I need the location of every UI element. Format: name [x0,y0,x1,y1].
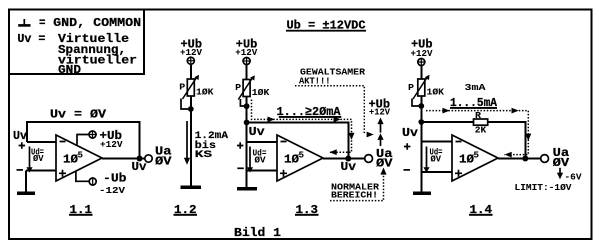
output label Ua 0V (1.1) [155,145,172,169]
node label Uv (1.3 input) [249,125,266,139]
annotation NORMALER BEREICH! [331,181,379,200]
supply label +Ub +12V (1.4) [411,38,433,59]
potentiometer value 10K (1.2) [196,87,214,98]
svg-text:BEREICH!: BEREICH! [331,189,378,200]
current label 1.2mA bis KS [195,130,229,161]
dotted path arrowhead right b (1.3) [334,117,341,123]
wire wiper connection 1.4 [412,99,419,107]
wire non-inverting input 1.4 [421,171,452,173]
wire negative supply pin 1.1 [76,171,89,181]
output terminal circle 1.4 [541,155,549,163]
junction node 2 (feedback) 1.4 [418,119,424,125]
dotted path arrowhead left (1.4) [505,152,512,158]
svg-text:1ØK: 1ØK [427,87,445,98]
wire inverting input 1.3 [247,141,277,143]
svg-text:+12V: +12V [180,47,202,58]
svg-text:-Ub: -Ub [103,172,127,186]
positive supply terminal circle 1.4 [417,58,426,67]
wire main vertical 1.3 [246,65,248,170]
legend text line 2: Uv = Virtuelle [17,32,129,46]
wire ground stem 1.3 [246,171,248,188]
output terminal circle 1.1 [145,155,152,162]
svg-text:Uv: Uv [13,129,28,143]
dotted annotation path (gewaltsamer akt) 1.3 [295,86,364,135]
wire non-inverting input 1.3 [247,170,277,172]
legend text line 4: virtueller [58,53,137,67]
output terminal circle 1.3 [365,155,373,163]
node label Uv (1.3 output) [341,160,357,174]
label LIMIT:-10V [515,182,572,193]
svg-text:Bild 1: Bild 1 [234,226,281,240]
svg-text:KS: KS [195,149,213,161]
svg-text:GND, COMMON: GND, COMMON [53,16,141,30]
dotted annotation path (normaler bereich) 1.3 [330,175,384,201]
svg-text:-12V: -12V [99,185,125,196]
potentiometer P arrow 1.3 [238,75,255,99]
svg-text:5: 5 [474,150,480,161]
potentiometer P arrow 1.4 [413,75,430,99]
svg-text:-6V: -6V [565,172,582,183]
supply label +Ub +12V (1.1) [100,129,123,150]
wire output 1.3 [323,158,365,160]
svg-text:1ØK: 1ØK [196,87,214,98]
op-amp A1 gain label 10^5 [63,150,83,167]
op-amp A2 gain label 10^5 [284,150,304,167]
potentiometer P 10K (1.4) body [418,79,425,96]
minus polarity mark 1.1 [17,169,24,171]
wire wiper connection 1.3 [240,99,244,106]
minus polarity mark 1.3 [237,167,244,169]
wire feedback rail 1.1 [27,122,140,159]
value label Ud= 0V (1.4) [430,147,443,165]
wire feedback rail with resistor 1.4 [421,122,525,159]
positive supply terminal circle 1.2 [187,56,196,65]
svg-text:ØV: ØV [431,153,442,164]
wire inverting input 1.1 [27,141,56,143]
dotted current path 1.3 [252,100,352,153]
caption 1.2 [174,203,198,217]
dotted annotation arrowhead up (1.3) [380,168,386,175]
svg-text:LIMIT:-1ØV: LIMIT:-1ØV [515,182,572,193]
dotted path arrowhead right b (1.4) [512,108,519,114]
svg-text:5: 5 [78,150,84,161]
svg-text:ØV: ØV [376,157,393,171]
wire feedback rail 1.3 [247,122,349,158]
junction node 1 (wiper) 1.4 [418,103,424,109]
supply label -Ub -12V (1.1) [99,172,127,197]
current label 1...5mA (1.4) [450,96,498,110]
svg-text:1Ø: 1Ø [284,153,300,167]
potentiometer value 10K (1.4) [427,87,445,98]
legend ground symbol [18,19,30,25]
wire inverting input 1.4 [421,141,452,143]
wire wiper connection 1.2 [181,99,188,110]
svg-text:ØV: ØV [255,154,266,165]
minus polarity mark 1.4 [404,169,411,171]
svg-text:2K: 2K [475,125,487,136]
current label 3mA (1.4) [465,82,486,93]
svg-text:Uv: Uv [249,125,266,139]
dotted current path 1.4 [426,111,528,155]
caption Bild 1 [234,226,281,240]
svg-text:1ØK: 1ØK [252,87,270,98]
wire output 1.4 [498,158,541,160]
potentiometer P 10K (1.3) body [243,80,250,97]
op-amp A3 gain label 10^5 [459,150,479,167]
junction node 1.2 [188,106,194,112]
caption 1.4 [469,203,493,217]
header label Ub = +/-12VDC [286,19,366,33]
supply label +Ub +12V (1.3 right) [369,98,391,118]
op-amp A3 triangle [452,135,498,181]
caption 1.3 [295,203,319,217]
op-amp A1 triangle [56,135,102,181]
svg-text:+12V: +12V [100,139,123,150]
dotted path arrowhead left (1.3) [330,149,337,155]
svg-text:1Ø: 1Ø [63,153,79,167]
ground 1.3 [237,187,257,191]
legend text line 1: = GND, COMMON [39,16,141,30]
wire ground stem 1.4 [420,172,422,192]
dotted annotation arrowhead right (1.3) [367,132,374,138]
svg-text:5: 5 [299,150,305,161]
svg-text:P: P [408,82,414,93]
plus polarity mark 1.3 [237,142,243,149]
svg-text:ØV: ØV [155,154,172,168]
wire output 1.1 [102,158,145,160]
value label Ud= 0V [31,146,44,164]
annotation GEWALTSAMER AKT!!! [299,67,365,87]
Ud arrow 1.4 [423,147,429,173]
dotted path arrowhead right a (1.3) [268,117,275,123]
potentiometer P arrow 1.2 [183,75,200,99]
node label Uv (input, left) [13,129,28,143]
supply label +Ub +12V (1.2) [180,38,202,58]
svg-text:3mA: 3mA [465,82,486,93]
resistor R 2K body [474,119,488,125]
junction node 2 (feedback) 1.3 [244,120,250,126]
limit arrow down (1.4) [557,168,563,180]
op-amp A2 input signs [280,142,287,177]
svg-text:ØV: ØV [553,156,570,170]
output label Ua 0V (1.3) [376,147,393,171]
op-amp A1 input signs [59,142,66,177]
svg-text:+12V: +12V [411,48,433,59]
node label Uv = 0V [50,108,107,122]
node label Uv (1.4 input) [402,126,419,140]
junction node 1 (wiper) 1.3 [244,103,250,109]
caption 1.1 [69,203,93,217]
svg-text:Uv =: Uv = [17,32,45,46]
current label 1...>=20mA [277,105,342,119]
label -6V [565,172,582,183]
legend box [9,10,144,74]
svg-text:P: P [235,82,241,93]
current arrow 1.2 [184,121,190,165]
junction node output 1.1 [137,156,143,162]
potentiometer value 10K (1.3) [252,87,270,98]
legend text line 5: GND [58,63,81,77]
resistor label R [475,110,481,121]
ground 1.2 [181,186,202,190]
resistor value 2K [475,125,487,136]
value label Ud= 0V (1.3) [253,148,267,166]
voltage swing arrow up pair 1.3 [377,117,383,146]
wire positive supply pin 1.1 [77,135,88,147]
Ud arrow 1.1 [26,147,32,173]
svg-text:Uv: Uv [402,126,419,140]
positive supply terminal circle 1.1 [88,130,97,139]
negative supply terminal circle 1.1 [89,177,96,186]
plus polarity mark 1.4 [404,143,410,150]
node label Uv (output) [132,160,148,174]
wire main vertical 1.2 [190,65,192,186]
supply label +Ub +12V (1.3) [235,38,257,58]
op-amp A2 triangle [277,135,323,181]
potentiometer label P (1.3) [235,82,241,93]
svg-text:Uv = ØV: Uv = ØV [50,108,107,122]
svg-text:ØV: ØV [33,153,44,164]
junction node output 1.3 [345,156,351,162]
potentiometer P 10K (1.2) body [187,79,194,96]
ground 1.1 [17,192,35,196]
svg-text:1Ø: 1Ø [459,153,475,167]
svg-text:=: = [39,16,46,30]
junction node output 1.4 [522,156,528,162]
dotted path arrowhead down (1.4) [525,134,531,141]
output label Ua 0V (1.4) [553,146,570,170]
op-amp A3 input signs [455,142,462,177]
positive supply terminal circle 1.3 [242,57,251,66]
svg-text:R: R [475,110,481,121]
potentiometer label P (1.4) [408,82,414,93]
wire main vertical 1.4 [420,66,422,172]
wire ground stem 1.1 [25,171,27,193]
plus polarity mark 1.1 [19,142,25,149]
dotted path arrowhead right a (1.4) [443,108,450,114]
svg-text:P: P [179,81,185,92]
ground 1.4 [413,191,431,195]
svg-text:GND: GND [58,63,81,77]
dotted path arrowhead down (1.3) [349,133,355,140]
svg-text:Uv: Uv [132,160,148,174]
legend text line 3: Spannung, [58,43,126,57]
svg-text:Uv: Uv [341,160,357,174]
svg-text:+12V: +12V [369,107,390,118]
potentiometer label P (1.2) [179,81,185,92]
Ud arrow 1.3 [247,147,253,173]
svg-text:AKT!!!: AKT!!! [299,75,331,86]
svg-text:+12V: +12V [235,47,257,58]
wire non-inverting input 1.1 [26,170,56,172]
